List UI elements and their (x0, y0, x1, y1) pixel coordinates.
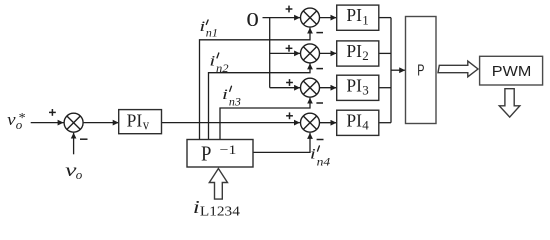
svg-text:3: 3 (362, 82, 369, 97)
svg-text:n1: n1 (206, 27, 218, 39)
svg-text:n2: n2 (216, 63, 229, 75)
svg-text:o: o (76, 167, 83, 182)
svg-text:PI: PI (127, 111, 143, 131)
svg-text:v: v (143, 118, 150, 134)
svg-text:PI: PI (346, 5, 362, 25)
svg-text:i: i (209, 53, 215, 69)
svg-text:n3: n3 (229, 96, 241, 108)
svg-text:PI: PI (346, 75, 362, 95)
svg-text:2: 2 (362, 48, 369, 63)
svg-text:4: 4 (362, 117, 369, 132)
svg-text:n4: n4 (317, 157, 331, 169)
svg-text:i: i (310, 147, 316, 163)
svg-text:−1: −1 (220, 142, 237, 157)
svg-text:0: 0 (246, 9, 259, 31)
svg-text:i: i (199, 19, 205, 35)
svg-text:P: P (417, 63, 424, 80)
svg-text:PI: PI (346, 41, 362, 61)
svg-text:*: * (19, 111, 26, 126)
svg-text:v: v (65, 160, 76, 180)
svg-text:PI: PI (346, 110, 362, 130)
svg-text:PWM: PWM (492, 64, 532, 80)
svg-text:L1234: L1234 (200, 205, 240, 220)
svg-text:1: 1 (362, 12, 369, 27)
svg-text:i: i (222, 87, 228, 103)
svg-text:P: P (201, 141, 211, 165)
